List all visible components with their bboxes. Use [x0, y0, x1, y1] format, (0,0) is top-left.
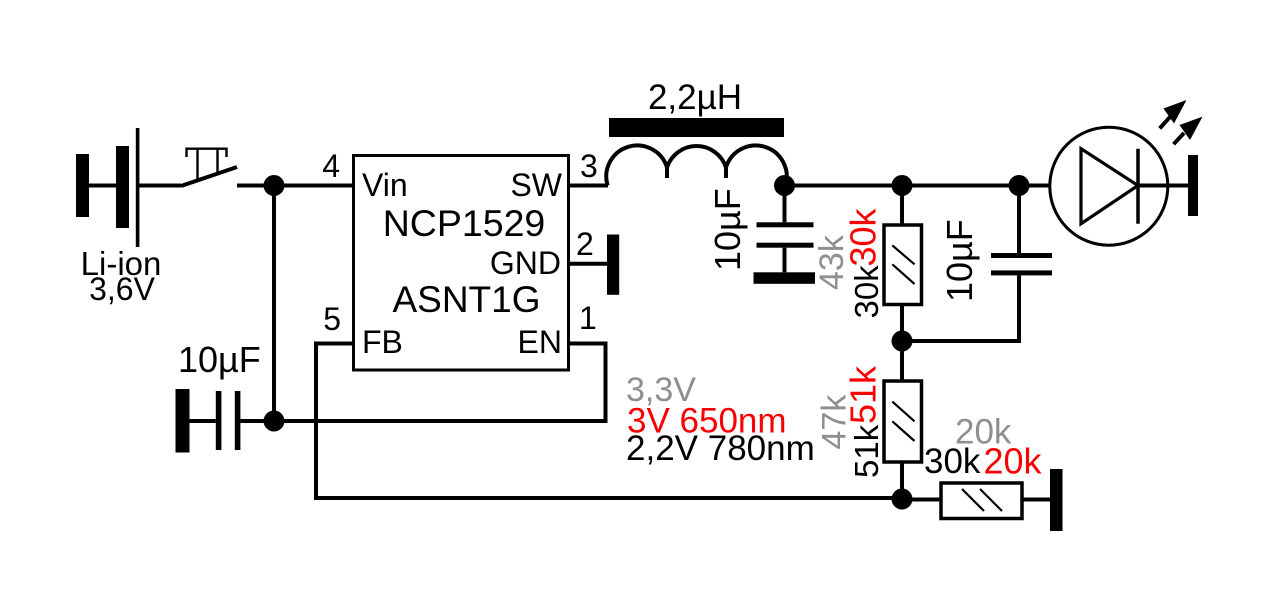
svg-text:ASNT1G: ASNT1G	[392, 279, 540, 320]
svg-text:1: 1	[579, 300, 597, 336]
resistor R3	[941, 483, 1022, 519]
wire node to R1	[900, 186, 904, 227]
node R1 top junction dot	[892, 175, 913, 196]
LED light arrow 2	[1174, 117, 1203, 145]
wire Vin node down	[272, 186, 276, 422]
svg-text:51k: 51k	[843, 365, 884, 424]
capacitor C1 plates	[216, 391, 241, 450]
wire EN rail	[274, 344, 606, 422]
label 3,3V gray	[626, 371, 696, 409]
wire battery plates	[89, 184, 116, 188]
label 10uF C2	[707, 188, 748, 271]
svg-text:FB: FB	[362, 324, 403, 360]
pin label GND	[490, 245, 561, 281]
label 20k red R3	[984, 441, 1043, 482]
pin number 5	[323, 301, 341, 337]
capacitor C3 plates	[991, 253, 1052, 275]
label 3V 650nm red	[627, 402, 787, 441]
wire C1 to node	[240, 419, 274, 423]
node C3 top junction dot	[1009, 175, 1030, 196]
pin number 3	[580, 148, 598, 184]
node mid junction dot	[892, 331, 913, 352]
ground bar C2	[754, 272, 816, 284]
label 2,2V 780nm black	[626, 429, 815, 468]
pin label FB	[362, 324, 403, 360]
node FB junction dot	[892, 489, 913, 510]
svg-text:30k: 30k	[848, 265, 885, 319]
wire pin 2 to ground	[569, 262, 608, 266]
label 30k black R3	[924, 442, 981, 481]
label 43k gray R1	[813, 234, 851, 290]
battery BT1 negative terminal bar	[76, 154, 89, 217]
label NCP1529	[383, 202, 546, 244]
label 30k black R1	[848, 265, 885, 319]
svg-text:30k: 30k	[843, 207, 884, 266]
switch S1 push-button actuator	[187, 149, 227, 180]
svg-text:2: 2	[576, 226, 594, 262]
battery BT1 positive thin plate	[136, 128, 140, 247]
ground terminal bar C1	[176, 389, 190, 453]
label 10uF C3	[939, 219, 980, 302]
capacitor C2 plates	[757, 222, 814, 247]
label 51k red R2	[843, 365, 884, 424]
battery BT1 thick plate	[116, 146, 129, 228]
node SW output junction dot	[774, 175, 795, 196]
svg-text:3: 3	[580, 148, 598, 184]
wire battery to switch	[139, 184, 181, 188]
label Li-ion	[81, 245, 162, 282]
svg-text:5: 5	[323, 301, 341, 337]
terminal bar R3	[1050, 469, 1063, 531]
label 10uF input cap	[178, 339, 261, 380]
svg-text:20k: 20k	[984, 441, 1043, 482]
switch S1 blade	[181, 167, 237, 186]
svg-text:30k: 30k	[924, 442, 981, 481]
svg-text:EN: EN	[518, 324, 562, 360]
pin label Vin	[362, 167, 408, 203]
svg-text:3,6V: 3,6V	[89, 271, 155, 307]
LED D1 triangle	[1081, 149, 1138, 224]
wire R2 to FB node	[900, 462, 904, 499]
svg-text:GND: GND	[490, 245, 561, 281]
svg-text:4: 4	[322, 148, 340, 184]
wire node to C2	[783, 186, 787, 223]
svg-text:10µF: 10µF	[178, 339, 261, 380]
label 51k black R2	[848, 424, 885, 478]
resistor R1	[884, 225, 922, 305]
node Vin junction dot	[264, 175, 285, 196]
pin number 1	[579, 300, 597, 336]
label ASNT1G	[392, 279, 540, 320]
LED D1 cathode bar	[1136, 149, 1140, 224]
pin number 2	[576, 226, 594, 262]
wire R1 to mid node	[900, 304, 904, 341]
wire pin 3 to inductor	[569, 184, 609, 188]
terminal bar LED	[1188, 155, 1198, 216]
resistor R2	[884, 381, 922, 462]
label 30k red R1	[843, 207, 884, 266]
svg-text:10µF: 10µF	[707, 188, 748, 271]
svg-text:SW: SW	[510, 167, 562, 203]
wire FB node to R3	[902, 498, 941, 502]
node input cap junction dot	[264, 411, 285, 432]
ground bar pin 2	[607, 235, 619, 295]
svg-text:51k: 51k	[848, 424, 885, 478]
wire switch to pin 4	[237, 184, 354, 188]
LED D1 circle	[1050, 127, 1168, 245]
label 20k gray R3	[955, 413, 1012, 452]
pin label SW	[510, 167, 562, 203]
svg-text:2,2V 780nm: 2,2V 780nm	[626, 429, 815, 468]
svg-text:2,2µH: 2,2µH	[648, 78, 742, 117]
op-amp U1 NCP1529 box	[354, 156, 569, 371]
label 2,2uH	[648, 78, 742, 117]
svg-text:10µF: 10µF	[939, 219, 980, 302]
wire node to C3	[1017, 186, 1021, 254]
pin number 4	[322, 148, 340, 184]
svg-text:Vin: Vin	[362, 167, 408, 203]
wire C2 to ground	[783, 248, 787, 273]
wire FB to rail	[316, 344, 902, 499]
wire ground bar to C1	[190, 419, 216, 423]
inductor L1 coil	[606, 145, 786, 185]
wire output rail	[785, 184, 1051, 188]
label 3,6V	[89, 271, 155, 307]
label 47k gray R2	[816, 394, 854, 450]
wire C3 to mid node	[902, 275, 1019, 341]
wire R3 to terminal	[1022, 498, 1050, 502]
inductor L1 core bar	[609, 118, 784, 137]
pin label EN	[518, 324, 562, 360]
svg-text:NCP1529: NCP1529	[383, 202, 546, 244]
LED light arrow 1	[1160, 100, 1187, 128]
wire LED to terminal	[1138, 184, 1189, 188]
wire mid node to R2	[900, 341, 904, 382]
